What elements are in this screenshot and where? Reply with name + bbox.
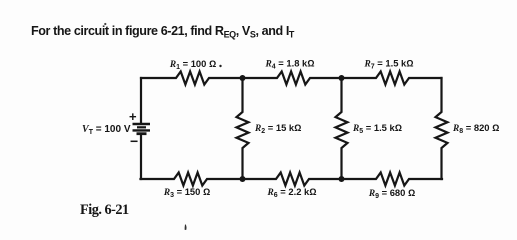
svg-text:For the circuit in figure 6-21: For the circuit in figure 6-21, find REQ… xyxy=(31,24,295,40)
svg-text:+: + xyxy=(129,109,137,124)
svg-text:Fig. 6-21: Fig. 6-21 xyxy=(80,202,129,218)
svg-text:−: − xyxy=(130,133,138,149)
